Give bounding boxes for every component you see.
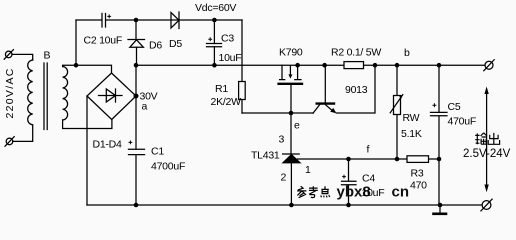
transformer core <box>44 63 47 130</box>
wire C1 bottom lead <box>135 155 137 205</box>
output range arrow <box>486 92 488 185</box>
TL431 U1 <box>290 113 292 154</box>
capacitor C5 <box>431 65 448 205</box>
wire secondary top to bridge <box>63 65 112 73</box>
svg-text:a: a <box>142 101 148 113</box>
wire bridge minus drop to ground row <box>86 96 88 205</box>
svg-text:f: f <box>367 144 370 156</box>
svg-text:C1: C1 <box>151 146 164 158</box>
svg-text:C3: C3 <box>221 33 234 45</box>
svg-text:B: B <box>44 50 51 62</box>
terminal top-left <box>5 51 12 58</box>
terminal output top-right <box>485 61 493 69</box>
label 输出 hanzi <box>475 133 479 144</box>
svg-text:cn: cn <box>392 184 410 201</box>
svg-text:TL431: TL431 <box>251 150 280 162</box>
capacitor C2 <box>102 14 106 28</box>
svg-text:RW: RW <box>403 112 420 124</box>
wire R1 branch <box>241 20 243 113</box>
wire primary bottom <box>13 126 33 142</box>
capacitor C1 <box>129 149 145 154</box>
diode D5 <box>171 12 179 29</box>
wire C3 leads <box>213 20 215 65</box>
ground symbol <box>434 213 447 216</box>
transistor Q 9013 <box>324 65 326 102</box>
label 参考点 hanzi <box>297 186 306 198</box>
svg-text:D1-D4: D1-D4 <box>93 139 123 151</box>
svg-text:5.1K: 5.1K <box>401 128 422 140</box>
svg-text:10uF: 10uF <box>362 187 385 199</box>
terminal output bottom-right <box>482 201 491 210</box>
wire f row (ref) <box>298 158 440 160</box>
resistor R1 <box>239 82 246 100</box>
wire top rail Vdc <box>76 19 242 21</box>
bridge rectifier D1-D4 diamond <box>87 73 136 120</box>
svg-text:b: b <box>404 47 410 59</box>
resistor R3 <box>407 156 429 163</box>
potentiometer RW <box>396 65 398 159</box>
svg-text:10uF: 10uF <box>219 52 242 64</box>
wire secondary bottom to bridge <box>63 120 112 129</box>
wire left drop from top rail to AC node <box>75 20 77 65</box>
svg-text:2K/2W: 2K/2W <box>211 96 242 108</box>
wire primary top <box>12 54 33 60</box>
junction dots <box>134 18 139 23</box>
capacitor C4 <box>342 159 357 205</box>
svg-text:e: e <box>294 120 300 132</box>
transformer secondary coil <box>63 67 68 120</box>
svg-text:R1: R1 <box>215 83 228 95</box>
diode D6 <box>128 40 145 48</box>
wire ground row <box>87 204 482 206</box>
svg-text:C5: C5 <box>448 101 461 113</box>
svg-text:R2 0.1/ 5W: R2 0.1/ 5W <box>331 47 381 59</box>
svg-text:D6: D6 <box>149 40 162 52</box>
svg-text:D5: D5 <box>169 38 182 50</box>
mosfet K790 <box>280 65 285 79</box>
bridge inner diode <box>99 89 123 102</box>
svg-text:R3: R3 <box>411 168 424 180</box>
terminal bottom-left <box>6 138 13 145</box>
wire emitter row to b node <box>336 65 375 113</box>
svg-text:2.5V-24V: 2.5V-24V <box>463 148 511 160</box>
svg-text:K790: K790 <box>279 47 303 59</box>
resistor R2 <box>344 62 364 69</box>
svg-text:4700uF: 4700uF <box>151 161 185 173</box>
wire 30V rail <box>136 64 485 66</box>
svg-text:2: 2 <box>281 172 287 184</box>
capacitor C3 <box>207 44 222 47</box>
wire D6 vertical / 30V node line <box>135 20 138 149</box>
transformer B primary coil <box>28 60 33 125</box>
wire gate row e <box>242 112 313 114</box>
svg-text:470uF: 470uF <box>448 116 477 128</box>
svg-text:9013: 9013 <box>345 84 368 96</box>
svg-text:C2 10uF: C2 10uF <box>84 35 123 47</box>
arrowheads <box>484 87 488 95</box>
svg-text:470: 470 <box>410 180 427 192</box>
svg-text:220V/AC: 220V/AC <box>4 67 16 118</box>
svg-text:Vdc=60V: Vdc=60V <box>195 2 236 14</box>
svg-text:1: 1 <box>305 164 311 176</box>
svg-text:3: 3 <box>279 134 285 146</box>
